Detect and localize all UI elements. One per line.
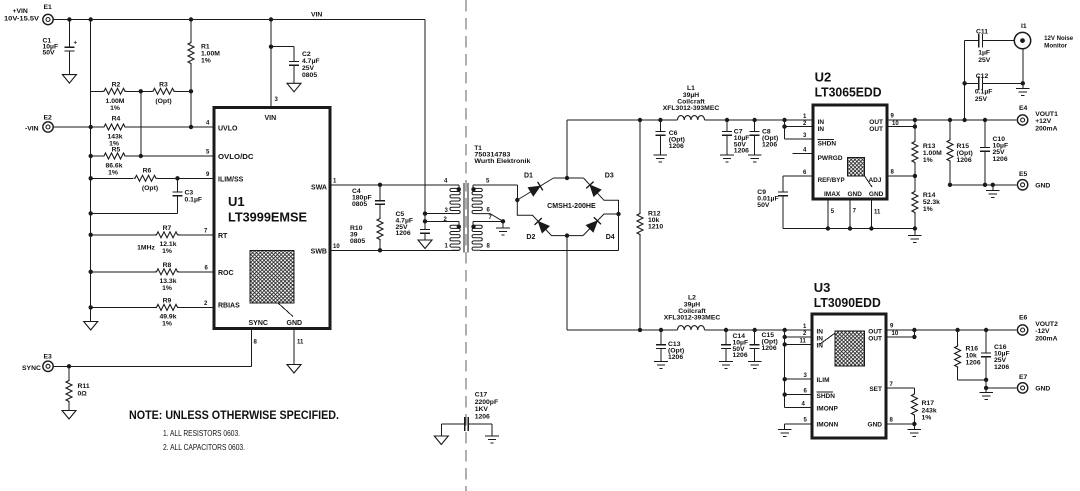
svg-text:E2: E2 — [44, 115, 53, 122]
junction gnd tap — [991, 183, 995, 187]
junction R17 bottom — [912, 422, 916, 426]
junction on rail at C1 — [67, 17, 71, 21]
junction on rail at left bus — [89, 17, 93, 21]
U3 pin number 5 — [804, 418, 808, 424]
T1 pin 2 label — [444, 217, 448, 223]
svg-text:12V Noise: 12V Noise — [1044, 35, 1073, 42]
ground under C2 — [287, 83, 301, 92]
T1 primary lower winding — [450, 225, 461, 251]
svg-text:4.7µF: 4.7µF — [302, 58, 320, 65]
svg-text:1206: 1206 — [993, 156, 1008, 163]
svg-text:LT3090EDD: LT3090EDD — [814, 295, 881, 310]
svg-text:0805: 0805 — [350, 238, 365, 245]
U2 exposed pad — [848, 158, 873, 187]
svg-text:OUT: OUT — [869, 126, 883, 133]
svg-text:R3: R3 — [159, 82, 168, 89]
resistor R17 — [911, 393, 936, 424]
T1 pin 6 label — [487, 208, 491, 214]
svg-text:R16: R16 — [966, 346, 979, 353]
inductor L1 — [663, 85, 720, 120]
resistor R16 — [955, 328, 981, 380]
svg-text:12.1k: 12.1k — [159, 241, 176, 248]
wire U2 pin2 stub — [785, 126, 814, 128]
diode D4 — [586, 217, 615, 241]
svg-text:XFL3012-393MEC: XFL3012-393MEC — [664, 315, 721, 322]
svg-text:1%: 1% — [110, 105, 120, 112]
svg-text:11: 11 — [800, 339, 807, 345]
svg-text:ROC: ROC — [218, 270, 234, 277]
svg-text:R1: R1 — [201, 44, 210, 51]
svg-text:IMAX: IMAX — [824, 191, 841, 198]
svg-text:E1: E1 — [44, 4, 53, 11]
connector E5 — [1017, 171, 1050, 190]
T1 pin 5 label — [486, 178, 490, 184]
svg-text:SHDN: SHDN — [818, 141, 837, 148]
svg-text:E5: E5 — [1019, 171, 1028, 178]
capacitor C13 — [656, 330, 684, 362]
T1 secondary upper winding — [471, 185, 482, 214]
svg-text:0805: 0805 — [302, 72, 317, 79]
junction gnd stub 7 — [848, 226, 852, 230]
svg-text:VIN: VIN — [311, 12, 322, 19]
capacitor C15 — [750, 330, 778, 362]
svg-text:0805: 0805 — [352, 201, 367, 208]
U2 pin number 3 — [803, 133, 807, 139]
resistor R8 — [91, 262, 214, 292]
wire SYNC row — [53, 329, 251, 367]
svg-text:D4: D4 — [606, 234, 615, 241]
wire U3 SHDN row — [785, 394, 812, 396]
svg-text:IN: IN — [818, 119, 825, 126]
svg-text:SWA: SWA — [311, 185, 327, 192]
svg-text:GND: GND — [287, 320, 303, 327]
capacitor C16 — [981, 328, 1010, 388]
ground under C7 — [720, 155, 734, 162]
wire U3 pin2 stub — [785, 336, 812, 338]
junction OUT split — [913, 118, 917, 129]
capacitor C5 — [396, 211, 431, 240]
wire R5 row left — [91, 155, 103, 157]
resistor R3 — [152, 82, 176, 106]
svg-text:VIN: VIN — [265, 115, 277, 122]
junction C10 bottom — [983, 183, 987, 187]
op-amp U1 block LT3999EMSE — [214, 108, 330, 329]
svg-text:10: 10 — [892, 331, 899, 337]
U2 pin number 1 — [803, 114, 807, 120]
ground E5 rail — [986, 185, 1000, 198]
svg-text:1%: 1% — [923, 206, 933, 213]
U2 pin number 9 — [891, 114, 895, 120]
junction R5 bus — [89, 154, 93, 158]
node VIN label — [311, 12, 322, 19]
wire E5 gnd rail — [950, 184, 1016, 186]
wire U3 ILIM row — [785, 378, 812, 380]
wire R6 to ILIM/SS — [158, 177, 215, 179]
svg-text:C3: C3 — [185, 190, 194, 197]
resistor R5 — [103, 147, 127, 177]
ground under C15 — [748, 362, 762, 369]
U3 pin number 9 — [890, 324, 894, 330]
svg-text:C12: C12 — [976, 73, 989, 80]
svg-text:25V: 25V — [978, 57, 991, 64]
isolation barrier dashed line — [465, 0, 467, 491]
svg-text:C2: C2 — [302, 51, 311, 58]
svg-text:-12V: -12V — [1035, 328, 1050, 335]
svg-text:SYNC: SYNC — [22, 365, 41, 372]
svg-text:243k: 243k — [922, 407, 937, 414]
U3 exposed pad — [820, 331, 865, 366]
svg-text:1%: 1% — [162, 248, 172, 255]
inductor L2 — [664, 295, 721, 331]
svg-text:1%: 1% — [922, 415, 932, 422]
wire U3 IMONN row — [785, 424, 812, 430]
wire U2 pin4 stub — [793, 152, 814, 154]
ground secondary center tap — [496, 221, 510, 235]
svg-text:13.3k: 13.3k — [159, 278, 176, 285]
U2 pin number 11 — [874, 210, 881, 216]
svg-text:+: + — [74, 41, 78, 47]
svg-text:1µF: 1µF — [978, 50, 990, 57]
T1 pin 7 label — [489, 215, 493, 221]
transformer T1 core — [464, 183, 468, 253]
T1 pin 3 label — [445, 208, 449, 214]
wire bridge bottom to -rail — [566, 236, 568, 330]
wire U3 pin10 stub — [886, 330, 914, 337]
resistor R6 — [134, 168, 159, 193]
svg-text:SWB: SWB — [311, 249, 327, 256]
U3 pin number 1 — [803, 324, 807, 330]
svg-text:1206: 1206 — [994, 364, 1009, 371]
svg-text:R7: R7 — [163, 225, 172, 232]
ground under R11 — [62, 411, 76, 420]
resistor R12 — [637, 120, 663, 330]
svg-text:ADJ: ADJ — [868, 177, 881, 184]
svg-text:1206: 1206 — [669, 143, 684, 150]
U3 pin number 11 — [800, 339, 807, 345]
svg-text:52.3k: 52.3k — [923, 199, 940, 206]
svg-text:1206: 1206 — [733, 352, 748, 359]
wire U2 pin10 stub — [887, 120, 915, 127]
junction C3 tap — [175, 176, 179, 180]
wire SET row — [886, 388, 914, 394]
svg-text:OUT: OUT — [868, 336, 882, 343]
junction gnd stub 5 — [826, 226, 830, 230]
T1 pin 8 label — [487, 244, 491, 250]
svg-text:R15: R15 — [957, 143, 970, 150]
svg-text:10: 10 — [333, 244, 340, 250]
connector E4 — [1017, 105, 1058, 132]
svg-text:E3: E3 — [44, 354, 53, 361]
svg-text:0.1µF: 0.1µF — [185, 197, 203, 204]
svg-text:XFL3012-393MEC: XFL3012-393MEC — [663, 105, 720, 112]
wire U3 IMONP row — [785, 407, 812, 409]
ground under C14 — [719, 362, 733, 369]
svg-text:10: 10 — [892, 121, 899, 127]
wire SWB — [330, 249, 459, 251]
capacitor C3 — [173, 178, 203, 213]
pin 6 label — [205, 265, 209, 271]
pin 1 label — [333, 178, 337, 184]
svg-text:R6: R6 — [143, 168, 152, 175]
svg-text:1206: 1206 — [475, 413, 490, 420]
wire R3 to R1 bus — [176, 90, 192, 92]
U2 pin number 8 — [891, 169, 895, 175]
svg-text:200mA: 200mA — [1035, 125, 1057, 132]
node bridge right — [616, 212, 620, 216]
capacitor C11 — [976, 29, 1014, 64]
svg-text:1%: 1% — [162, 285, 172, 292]
svg-text:(Opt): (Opt) — [142, 185, 158, 192]
resistor R2 row wire — [91, 90, 103, 92]
svg-text:E6: E6 — [1019, 315, 1028, 322]
U3 pin number 10 — [892, 331, 899, 337]
capacitor C14 — [721, 330, 748, 362]
svg-text:+12V: +12V — [1035, 118, 1052, 125]
wire SWA — [330, 184, 459, 186]
junction C12 right — [1021, 81, 1025, 85]
svg-text:GND: GND — [868, 422, 883, 429]
connector E7 — [1017, 374, 1050, 393]
ground C17 left — [434, 436, 448, 445]
svg-text:VOUT2: VOUT2 — [1035, 321, 1058, 328]
svg-text:SYNC: SYNC — [249, 320, 268, 327]
diode D1 — [524, 173, 543, 197]
wire U1 VIN pin3 drop — [270, 20, 272, 108]
U1 exposed pad — [250, 251, 294, 317]
svg-text:0.1µF: 0.1µF — [975, 89, 993, 96]
svg-text:R11: R11 — [78, 383, 90, 390]
U2 pin number 7 — [853, 209, 857, 215]
wire U3 pin11 stub — [785, 343, 812, 345]
junction SHDN — [783, 392, 787, 396]
junction R6 bus — [89, 176, 93, 180]
svg-text:IN: IN — [818, 126, 825, 133]
resistor R7 — [91, 225, 214, 255]
T1 pin 4 label — [444, 178, 448, 184]
junction R4/R1 — [189, 125, 193, 129]
junction C2 tap — [269, 45, 273, 49]
ground under C13 — [654, 362, 668, 369]
svg-text:RT: RT — [218, 233, 228, 240]
junction C13 — [659, 328, 663, 332]
svg-text:2. ALL CAPACITORS 0603.: 2. ALL CAPACITORS 0603. — [163, 443, 245, 452]
T1 secondary lower winding — [471, 221, 482, 250]
junction ILIM — [783, 377, 787, 381]
ground under R17 — [908, 424, 922, 437]
ground under C6 — [654, 155, 668, 162]
svg-text:1206: 1206 — [734, 148, 749, 155]
pin 11 label — [297, 340, 304, 346]
wire R5 to OVLO — [127, 155, 215, 157]
U3 pin number 7 — [890, 382, 894, 388]
svg-text:Wurth Elektronik: Wurth Elektronik — [474, 158, 530, 165]
junction C8 — [752, 118, 756, 122]
svg-text:1206: 1206 — [966, 360, 981, 367]
svg-text:1. ALL RESISTORS 0603.: 1. ALL RESISTORS 0603. — [163, 429, 240, 438]
junction C6 — [658, 118, 662, 122]
wire R4 to UVLO — [127, 126, 215, 128]
junction VIN drop to U1 — [269, 17, 273, 21]
resistor R10 — [350, 217, 383, 250]
svg-text:R17: R17 — [922, 400, 935, 407]
svg-text:1.00M: 1.00M — [201, 51, 220, 58]
wire U1 GND pin11 stub — [293, 329, 295, 365]
wire U2 bottom stubs — [828, 199, 872, 229]
U3 pin number 6 — [804, 389, 808, 395]
svg-text:200mA: 200mA — [1035, 335, 1057, 342]
resistor R14 — [912, 176, 940, 229]
U3 pin number 3 — [804, 373, 808, 379]
svg-text:U1: U1 — [228, 194, 245, 209]
wire I1 down — [1022, 49, 1024, 84]
pin 2 label — [204, 301, 208, 307]
svg-text:C11: C11 — [976, 29, 988, 36]
wire mid vertical R2R3 to R5 — [140, 91, 142, 156]
wire R6 row left — [91, 177, 133, 179]
node bridge left — [515, 198, 519, 202]
regulator U3 block LT3090EDD — [812, 280, 886, 438]
svg-text:(Opt): (Opt) — [155, 98, 171, 105]
pin 9 label — [206, 172, 210, 178]
svg-text:10k: 10k — [966, 353, 978, 360]
diode D2 — [526, 218, 549, 241]
svg-text:RBIAS: RBIAS — [218, 303, 240, 310]
svg-text:50V: 50V — [43, 49, 56, 56]
capacitor C17 — [441, 392, 498, 437]
wire ADJ row — [887, 175, 915, 177]
svg-text:1210: 1210 — [648, 223, 663, 230]
svg-text:1.00M: 1.00M — [923, 150, 942, 157]
junction C3row bus — [89, 211, 93, 215]
svg-text:VOUT1: VOUT1 — [1035, 111, 1058, 118]
svg-text:1206: 1206 — [762, 345, 777, 352]
svg-text:LT3999EMSE: LT3999EMSE — [228, 210, 307, 225]
svg-text:1%: 1% — [108, 170, 118, 177]
wire E7 row — [986, 387, 1016, 389]
junction gnd R14 — [913, 226, 917, 230]
junction U2 IN split — [782, 118, 786, 139]
svg-text:OUT: OUT — [869, 119, 883, 126]
regulator U2 block LT3065EDD — [813, 70, 887, 200]
svg-text:OUT: OUT — [868, 329, 882, 336]
resistor R15 — [947, 118, 973, 185]
svg-text:1%: 1% — [923, 157, 933, 164]
svg-text:ILIM: ILIM — [817, 377, 830, 384]
svg-text:R4: R4 — [112, 116, 121, 123]
svg-text:R8: R8 — [163, 262, 172, 269]
svg-text:IMONN: IMONN — [817, 422, 839, 429]
capacitor C7 — [722, 120, 749, 155]
wire C11 branch — [965, 41, 979, 120]
svg-text:-VIN: -VIN — [25, 126, 39, 133]
junction gnd stub 11 — [869, 226, 873, 230]
svg-text:D1: D1 — [524, 173, 533, 180]
junction C15 — [753, 328, 757, 332]
svg-text:UVLO: UVLO — [218, 126, 238, 133]
U2 pin number 2 — [803, 121, 807, 127]
wire U2 ground rail — [783, 228, 915, 230]
svg-text:49.9k: 49.9k — [159, 314, 176, 321]
svg-text:U2: U2 — [815, 70, 832, 85]
svg-text:IMONP: IMONP — [817, 406, 839, 413]
wire left vertical bus — [90, 20, 92, 308]
wire +raw rail — [567, 119, 813, 121]
svg-text:C17: C17 — [475, 392, 488, 399]
svg-text:+VIN: +VIN — [13, 8, 28, 15]
junction R10 bottom — [378, 248, 382, 252]
bridge part number — [547, 203, 596, 210]
ground under C1 — [62, 75, 76, 84]
diode D3 — [586, 173, 614, 197]
capacitor C4 — [352, 185, 385, 218]
wire C3 bottom row — [91, 212, 178, 214]
junction R7 bus — [89, 233, 93, 237]
capacitor C8 — [750, 120, 779, 155]
wire U3 OUT rail — [886, 329, 1016, 331]
svg-text:1206: 1206 — [762, 141, 777, 148]
svg-text:1MHz: 1MHz — [137, 245, 155, 252]
wire pin7 — [473, 220, 503, 222]
resistor R2 — [103, 82, 127, 113]
junction R2/R3 midpoint — [139, 89, 143, 93]
capacitor C10 — [980, 118, 1008, 185]
junction U3 OUT split — [912, 328, 916, 339]
junction C12 left — [962, 81, 966, 85]
ground under left bus — [84, 307, 98, 330]
svg-text:2200pF: 2200pF — [475, 399, 498, 406]
pin 7 label — [204, 228, 208, 234]
junction ADJ — [913, 174, 917, 178]
connector E1 — [4, 4, 53, 25]
U2 pin number 4 — [803, 148, 807, 154]
T1 pin 1 label — [445, 244, 449, 250]
U3 pin number 4 — [802, 402, 806, 408]
svg-text:GND: GND — [869, 191, 884, 198]
junction R11 tap — [67, 364, 71, 368]
junction R8 bus — [89, 270, 93, 274]
capacitor C12 — [965, 73, 1023, 103]
svg-text:1206: 1206 — [668, 354, 683, 361]
capacitor C9 — [757, 176, 788, 229]
junction E2 bus — [89, 125, 93, 129]
ground U2 rail — [908, 229, 922, 243]
node bridge bottom — [565, 233, 569, 237]
U2 pin number 5 — [831, 209, 835, 215]
junction tap pin3 — [423, 211, 427, 215]
junction C14 — [724, 328, 728, 332]
svg-text:ILIM/SS: ILIM/SS — [218, 177, 244, 184]
capacitor C2 — [271, 47, 320, 84]
svg-text:E7: E7 — [1019, 374, 1028, 381]
junction C7 — [725, 118, 729, 122]
junction pin6/7 — [501, 219, 505, 223]
junction R9 bus — [89, 305, 93, 309]
svg-text:OVLO/DC: OVLO/DC — [218, 154, 254, 161]
wire U2 OUT rail — [887, 119, 1016, 121]
ground E7 row — [979, 388, 993, 400]
ground under C5 — [418, 240, 432, 249]
svg-text:R14: R14 — [923, 192, 936, 199]
wire bridge outline — [517, 178, 618, 236]
wire pin5 to bridge — [473, 185, 517, 198]
resistor R4 — [103, 116, 127, 148]
pin 3 label — [275, 97, 279, 103]
ground under I1 — [1016, 83, 1030, 95]
svg-text:1%: 1% — [201, 58, 211, 65]
svg-text:LT3065EDD: LT3065EDD — [815, 85, 882, 100]
junction U3 IN split — [783, 328, 787, 408]
wire U2 REF/BYP row — [783, 175, 813, 177]
